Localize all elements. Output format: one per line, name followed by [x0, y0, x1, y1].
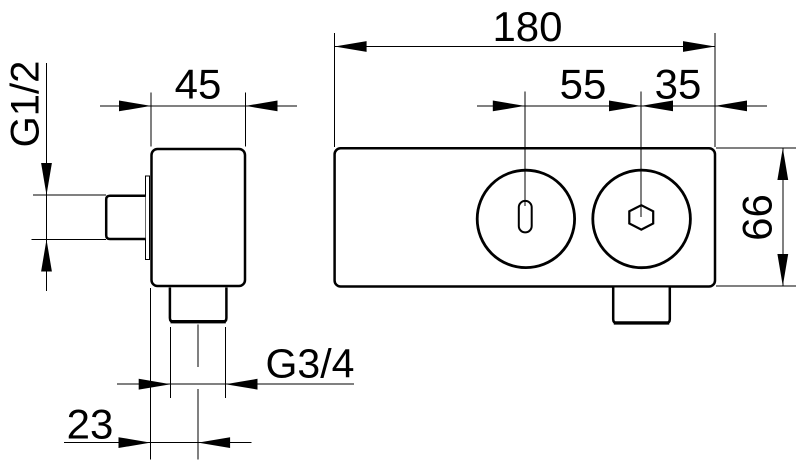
svg-text:180: 180 [492, 3, 562, 50]
dimension 45 line and arrows [100, 101, 297, 112]
dimension 55 extension line right [640, 92, 642, 218]
dimension 23 center line [197, 325, 199, 460]
G1/2 extension line bottom [32, 239, 107, 241]
dimension 23 line and arrows [64, 437, 251, 448]
svg-text:G3/4: G3/4 [266, 341, 355, 387]
dimension 45 extension line right [245, 93, 247, 147]
G1/2 extension line top [33, 194, 106, 196]
dimension 66 label [734, 194, 781, 241]
dimension 35 label [655, 61, 702, 108]
svg-text:35: 35 [655, 61, 702, 108]
G3/4 extension line right [225, 327, 227, 398]
dimension 180 extension line left [334, 33, 336, 147]
svg-text:66: 66 [734, 194, 781, 241]
slot on left knob [519, 201, 532, 233]
dimension 180 extension line right [714, 33, 716, 147]
knob circle right [593, 170, 691, 268]
dimension 45 extension line left [150, 93, 152, 147]
G1/2 inlet nipple side view [106, 196, 145, 239]
svg-text:55: 55 [560, 61, 607, 108]
svg-text:G1/2: G1/2 [4, 61, 48, 148]
knob circle left [477, 170, 574, 267]
svg-text:45: 45 [175, 61, 222, 108]
dimension 66 line and arrows [777, 148, 788, 286]
G3/4 leader line and arrows [117, 379, 354, 390]
G3/4 extension line left [170, 327, 172, 398]
G3/4 label [266, 341, 355, 387]
dimension 66 extension line bottom [716, 285, 796, 287]
dimension 55 extension line left [524, 92, 526, 207]
valve body side view [152, 149, 246, 286]
dimension 35 line and arrows [641, 101, 767, 112]
dimension 180 label [492, 3, 562, 50]
dimension 23 extension line left [150, 288, 152, 460]
valve body front view [335, 148, 715, 286]
dimension 180 line and arrows [335, 41, 715, 52]
dimension 23 label [67, 401, 114, 448]
svg-text:23: 23 [67, 401, 114, 448]
G1/2 label [4, 61, 48, 148]
G3/4 outlet stub front view [613, 288, 670, 324]
dimension 55 line and arrows [477, 101, 641, 112]
hex socket on right knob [629, 205, 653, 229]
G3/4 outlet stub side view [170, 288, 227, 322]
dimension 55 label [560, 61, 607, 108]
dimension 66 extension line top [716, 147, 796, 149]
dimension 45 label [175, 61, 222, 108]
G1/2 dimension line vertical [41, 63, 52, 291]
mounting plate side view [145, 176, 149, 260]
